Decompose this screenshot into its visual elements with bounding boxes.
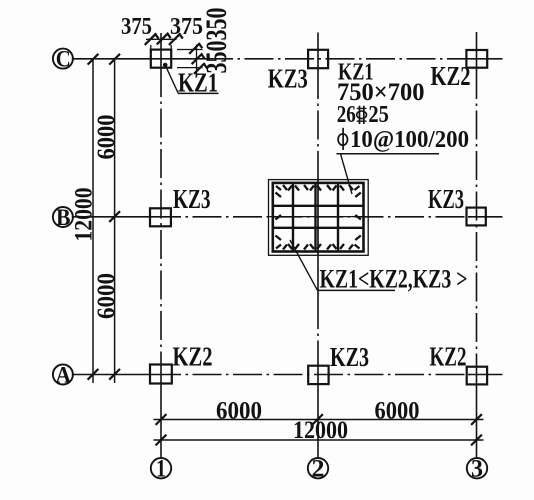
axis line C (horizontal) <box>72 58 503 60</box>
label KZ1 leader line at C1 <box>165 65 178 93</box>
dimension 350/350 (right of column C1) <box>196 45 198 78</box>
extension stub left 375 <box>150 45 152 50</box>
tick 350 top <box>189 43 202 54</box>
leader line to KZ1-KZ2-KZ3 note <box>290 240 318 290</box>
grid bubble A <box>53 363 73 389</box>
svg-text:6000: 6000 <box>216 397 262 424</box>
dimension line 6000/6000 (left, x=114.6) <box>114 59 116 383</box>
svg-text:26: 26 <box>337 102 356 128</box>
dimension line 6000/6000 (bottom, y=419.5) <box>154 419 484 421</box>
column section detail: outer concrete outline <box>269 180 369 256</box>
stirrup vertical leg 2 <box>314 183 316 252</box>
stirrup vertical leg 1 <box>292 183 294 252</box>
stirrup vertical leg 3 <box>337 183 339 252</box>
grid bubble 1 <box>151 456 171 483</box>
tick left-12000 at A <box>88 369 99 380</box>
label KZ1 leader dot at C1 <box>163 63 168 68</box>
svg-text:KZ1<KZ2,KZ3 >: KZ1<KZ2,KZ3 > <box>320 265 468 294</box>
svg-text:KZ3: KZ3 <box>268 64 308 94</box>
column KZ2 at C3 <box>466 50 487 68</box>
tick bottom-12000 at 1 <box>156 435 167 446</box>
extension stub right 375 <box>170 45 172 50</box>
svg-text:375: 375 <box>170 14 203 40</box>
svg-text:2: 2 <box>312 456 325 483</box>
svg-text:A: A <box>56 363 72 389</box>
column KZ3 at A2 <box>308 366 328 384</box>
svg-text:6000: 6000 <box>375 397 420 424</box>
grid bubble 3 <box>467 456 487 483</box>
column KZ1 at C1 <box>151 50 171 68</box>
axis line 2 (vertical) <box>317 33 319 458</box>
axis line 3 (vertical) <box>476 32 478 457</box>
note underline <box>318 289 396 291</box>
svg-text:KZ3: KZ3 <box>330 342 369 372</box>
dimension line 12000 (left, x=93) <box>92 59 94 383</box>
svg-text:1: 1 <box>156 456 166 483</box>
tick bottom-12000 at 3 <box>471 435 482 446</box>
svg-text:KZ3: KZ3 <box>173 184 211 214</box>
tick left-6000 at C <box>109 54 120 65</box>
tick 350 middle <box>192 53 205 64</box>
tick bottom-6000 at 1 <box>156 414 167 425</box>
tick left-6000 at B <box>109 211 120 222</box>
column section detail: outer stirrup (thick) <box>273 183 364 252</box>
grid bubble B <box>53 205 73 231</box>
svg-text:12000: 12000 <box>293 417 348 444</box>
column KZ2 at A3 <box>467 367 487 385</box>
axis line 2 through detail <box>317 180 319 256</box>
dimension line 12000 (bottom, y=440) <box>154 439 484 441</box>
svg-text:KZ2: KZ2 <box>173 342 213 372</box>
svg-text:B: B <box>56 205 71 231</box>
svg-text:25: 25 <box>368 102 389 128</box>
schedule underline <box>337 153 440 155</box>
tick bottom-6000 at 3 <box>471 414 482 425</box>
tick left-12000 at C <box>88 54 99 65</box>
stirrup horizontal leg 2 <box>273 227 364 229</box>
svg-text:12000: 12000 <box>71 188 98 242</box>
grid bubble C <box>53 47 73 73</box>
tick 350 bottom <box>194 63 207 74</box>
column KZ3 at B3 <box>467 208 486 226</box>
stirrup horizontal leg 1 <box>273 205 364 207</box>
schedule leader to stirrup <box>341 154 353 194</box>
column KZ3 at B1 <box>150 208 171 226</box>
tick 375 left <box>145 33 159 45</box>
svg-text:3: 3 <box>471 456 483 483</box>
extension stub bottom 350 <box>177 67 203 69</box>
axis line A (horizontal) <box>72 374 503 376</box>
tick 375 middle <box>157 33 171 45</box>
schedule text phi10@100/200 <box>338 127 469 153</box>
grid bubble 2 <box>308 456 328 483</box>
tick left-6000 at A <box>109 369 120 380</box>
column KZ2 at A1 <box>150 365 172 384</box>
svg-text:KZ2: KZ2 <box>430 341 467 371</box>
dimension 375/375 (top of column C1) <box>146 38 177 40</box>
svg-text:6000: 6000 <box>93 115 120 160</box>
schedule text 26-rebar-25 <box>337 102 389 128</box>
svg-text:KZ3: KZ3 <box>428 184 464 214</box>
rebar tick marks (26B25) <box>276 185 361 250</box>
label KZ1 underline at C1 <box>178 92 219 94</box>
svg-text:6000: 6000 <box>93 273 120 319</box>
column KZ3 at C2 <box>308 50 328 68</box>
axis line B through detail <box>269 216 369 218</box>
svg-text:KZ2: KZ2 <box>431 61 471 91</box>
svg-text:375: 375 <box>121 14 152 40</box>
tick bottom-6000 at 2 <box>312 414 323 425</box>
axis line B (horizontal) <box>72 216 503 218</box>
svg-text:C: C <box>56 47 71 73</box>
svg-text:10@100/200: 10@100/200 <box>350 127 469 153</box>
svg-text:350350: 350350 <box>200 8 233 74</box>
extension stub top 350 <box>177 49 203 51</box>
axis line 1 (vertical) <box>160 33 162 457</box>
tick 375 right <box>169 33 183 45</box>
